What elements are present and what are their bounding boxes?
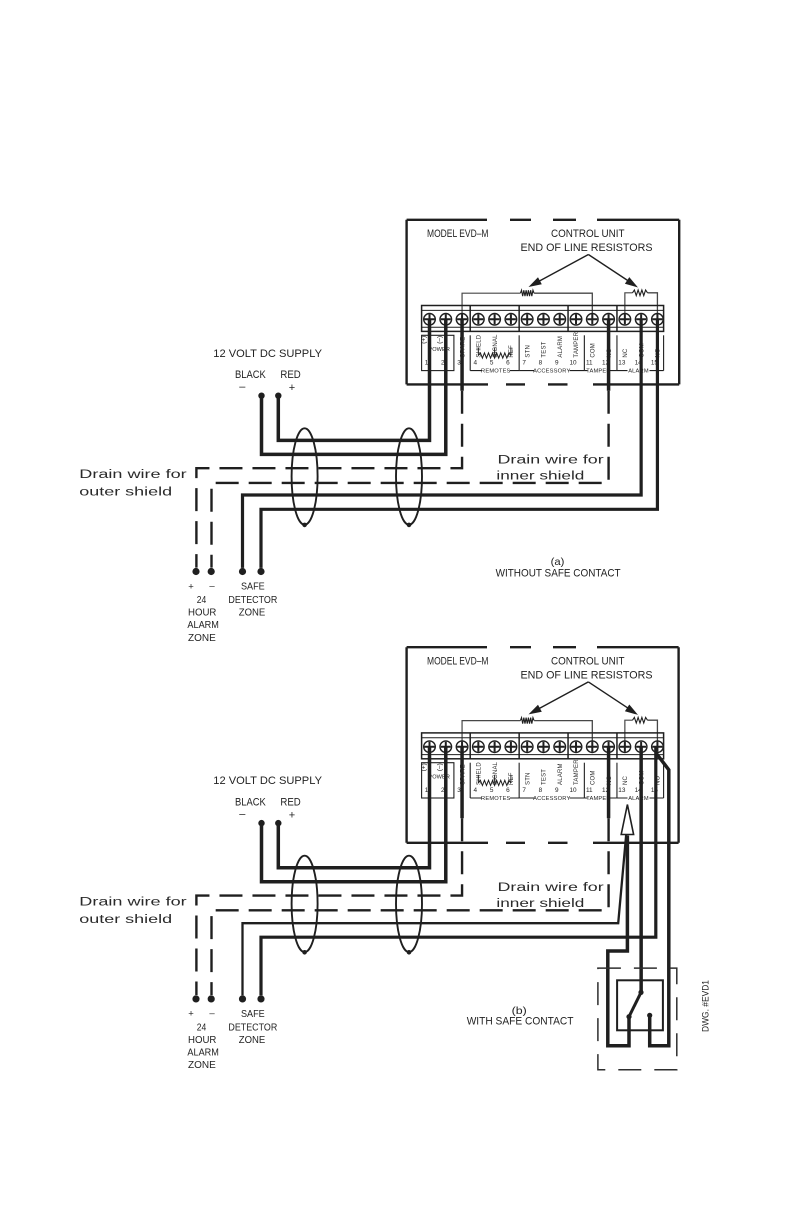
drain wire outer shield t3 (b) — [460, 747, 464, 819]
drain wire inner shield t12 (a) — [607, 319, 611, 391]
cable shield ellipse left (b) — [292, 856, 318, 952]
svg-text:REMOTES: REMOTES — [481, 369, 511, 375]
terminal strip TB1 (b) — [422, 733, 664, 759]
svg-text:9: 9 — [555, 360, 559, 367]
svg-text:(+): (+) — [420, 336, 427, 344]
svg-text:+: + — [188, 1009, 194, 1020]
group label REMOTES (a) — [470, 370, 519, 372]
group label REMOTES (b) — [470, 797, 519, 799]
supply node dots (a) — [258, 393, 264, 399]
cable shield ellipse right (a) — [396, 428, 422, 524]
svg-text:SAFE: SAFE — [241, 582, 265, 593]
svg-text:5: 5 — [490, 787, 494, 794]
svg-text:HOUR: HOUR — [188, 1035, 216, 1046]
svg-text:REF: REF — [509, 772, 515, 785]
svg-text:STN: STN — [525, 345, 531, 358]
svg-text:13: 13 — [618, 787, 626, 794]
svg-text:REMOTES: REMOTES — [481, 796, 511, 802]
svg-text:6: 6 — [506, 360, 510, 367]
EOL resistor R1 wire t3-t11 (a) — [462, 293, 520, 319]
svg-text:+: + — [289, 810, 295, 822]
svg-text:ACCESSORY: ACCESSORY — [533, 796, 570, 802]
svg-text:END OF LINE RESISTORS: END OF LINE RESISTORS — [521, 669, 653, 681]
svg-text:5: 5 — [490, 360, 494, 367]
terminal screws 1-15 (b) — [424, 741, 664, 753]
svg-text:MODEL EVD–M: MODEL EVD–M — [427, 228, 489, 240]
remote EOL resistor across terminals 4-6 (b) — [478, 775, 511, 783]
drain wire inner shield t12 (b) — [607, 747, 611, 819]
24 hour zone node dots (a) — [192, 568, 199, 575]
remote EOL resistor across terminals 4-6 (a) — [478, 348, 511, 356]
svg-text:ZONE: ZONE — [239, 1035, 266, 1046]
arrow to right EOL resistor (b) — [588, 682, 633, 712]
arrow to left EOL resistor (b) — [533, 682, 588, 712]
switch arm and contacts (b) — [629, 992, 641, 1016]
svg-text:HOUR: HOUR — [188, 608, 216, 619]
svg-text:–: – — [209, 581, 215, 592]
svg-text:24: 24 — [197, 1022, 207, 1033]
svg-text:MODEL EVD–M: MODEL EVD–M — [427, 656, 489, 668]
svg-text:outer shield: outer shield — [79, 914, 172, 926]
svg-text:ZONE: ZONE — [188, 633, 216, 644]
terminal screws 1-15 (a) — [424, 314, 664, 326]
cable shield ellipse left (a) — [292, 428, 318, 524]
group label TAMPER (b) — [584, 797, 617, 799]
svg-text:ALARM: ALARM — [187, 1048, 219, 1059]
wire black - supply to terminal 2 (a) — [262, 319, 446, 454]
svg-text:WITHOUT SAFE CONTACT: WITHOUT SAFE CONTACT — [496, 567, 621, 579]
EOL resistor R1 wire t3-t11 (b) — [462, 721, 520, 747]
drain wire outer shield t3 (a) — [460, 319, 464, 391]
wire terminal 14 to safe detector zone (a) — [243, 319, 642, 568]
svg-text:7: 7 — [522, 787, 526, 794]
safe contact dashed outline (b) — [598, 968, 677, 1070]
svg-text:ACCESSORY: ACCESSORY — [533, 369, 570, 375]
wire terminal 15 to safe detector zone (b) — [261, 747, 656, 996]
svg-text:12 VOLT DC SUPPLY: 12 VOLT DC SUPPLY — [213, 775, 322, 787]
terminal label frame (b) — [422, 763, 664, 798]
control unit enclosure box (b) — [407, 647, 679, 843]
wire safe contact to safe detector zone (b) — [243, 835, 627, 996]
svg-text:STN: STN — [525, 772, 531, 785]
svg-text:COM: COM — [591, 343, 597, 358]
svg-text:13: 13 — [618, 360, 626, 367]
safe detector zone node dots (b) — [239, 995, 246, 1002]
svg-text:ZONE: ZONE — [188, 1060, 216, 1071]
svg-text:7: 7 — [522, 360, 526, 367]
wire terminal 14 to safe contact switch (b) — [639, 747, 643, 993]
24 hour zone node dots (b) — [192, 995, 199, 1002]
svg-text:END OF LINE RESISTORS: END OF LINE RESISTORS — [521, 242, 653, 254]
svg-text:Drain wire for: Drain wire for — [498, 882, 604, 894]
svg-text:(–): (–) — [437, 763, 444, 771]
svg-text:BLACK: BLACK — [235, 369, 266, 381]
terminal name labels SPARE..NO (b) — [460, 759, 661, 785]
svg-text:COM: COM — [591, 770, 597, 785]
svg-text:(–): (–) — [437, 336, 444, 344]
pin numbers 1-15 (b) — [425, 787, 659, 794]
svg-text:TAMPER: TAMPER — [574, 759, 580, 785]
svg-text:11: 11 — [586, 360, 593, 367]
svg-text:6: 6 — [506, 787, 510, 794]
safe contact arrow cone at terminal 13 (b) — [621, 805, 633, 835]
svg-text:8: 8 — [539, 787, 543, 794]
svg-text:(a): (a) — [551, 556, 565, 568]
group label ALARM (b) — [617, 797, 664, 799]
control unit enclosure box (a) — [407, 220, 680, 385]
arrow to left EOL resistor (a) — [533, 255, 588, 285]
svg-text:+: + — [188, 581, 194, 592]
svg-text:CONTROL UNIT: CONTROL UNIT — [551, 656, 625, 668]
safe detector zone node dots (a) — [239, 568, 246, 575]
safe contact switch box (b) — [617, 980, 663, 1030]
supply node dots (b) — [258, 820, 264, 826]
svg-text:WITH SAFE CONTACT: WITH SAFE CONTACT — [467, 1015, 574, 1027]
svg-text:inner shield: inner shield — [496, 898, 584, 910]
arrow to right EOL resistor (a) — [588, 255, 633, 285]
group label ACCESSORY (b) — [519, 797, 584, 799]
cable shield ellipse right (b) — [396, 856, 422, 952]
svg-text:RED: RED — [280, 796, 300, 808]
svg-text:8: 8 — [539, 360, 543, 367]
svg-text:ALARM: ALARM — [187, 620, 219, 631]
svg-text:SAFE: SAFE — [241, 1009, 265, 1020]
svg-text:RED: RED — [280, 369, 300, 381]
wire terminal 15 to safe detector zone (a) — [261, 319, 657, 568]
svg-text:NC: NC — [623, 775, 629, 785]
terminal label frame (a) — [422, 335, 664, 370]
wire red + supply to terminal 1 (a) — [278, 319, 429, 440]
svg-text:ALARM: ALARM — [628, 369, 649, 375]
svg-text:DETECTOR: DETECTOR — [228, 1022, 277, 1033]
terminal name labels SPARE..NO (a) — [460, 331, 661, 357]
terminal strip TB1 (a) — [422, 306, 664, 332]
svg-text:ALARM: ALARM — [558, 763, 564, 785]
wire terminal 15 to switch contact (b) — [650, 753, 669, 1046]
group label ACCESSORY (a) — [519, 370, 584, 372]
svg-text:ZONE: ZONE — [239, 608, 266, 619]
svg-text:DWG. #EVD1: DWG. #EVD1 — [701, 980, 711, 1032]
svg-text:TEST: TEST — [542, 769, 548, 785]
svg-text:24: 24 — [197, 595, 207, 606]
svg-text:TAMPER: TAMPER — [574, 331, 580, 357]
svg-text:TEST: TEST — [542, 341, 548, 357]
svg-text:outer shield: outer shield — [79, 487, 172, 499]
svg-text:ALARM: ALARM — [628, 796, 649, 802]
svg-text:10: 10 — [569, 360, 577, 367]
svg-text:4: 4 — [474, 360, 478, 367]
svg-text:inner shield: inner shield — [496, 470, 584, 482]
svg-text:REF: REF — [509, 345, 515, 358]
svg-text:Drain wire for: Drain wire for — [498, 454, 604, 466]
svg-text:ALARM: ALARM — [558, 336, 564, 358]
svg-text:11: 11 — [586, 787, 593, 794]
svg-text:Drain wire for: Drain wire for — [79, 469, 187, 481]
svg-text:+: + — [289, 382, 295, 394]
svg-text:BLACK: BLACK — [235, 796, 266, 808]
group label ALARM (a) — [617, 370, 664, 372]
svg-text:NC: NC — [623, 348, 629, 358]
svg-text:–: – — [239, 809, 246, 821]
svg-text:(+): (+) — [420, 763, 427, 771]
wire red + supply to terminal 1 (b) — [278, 747, 429, 868]
svg-text:Drain wire for: Drain wire for — [79, 896, 187, 908]
svg-text:9: 9 — [555, 787, 559, 794]
svg-text:–: – — [209, 1008, 215, 1019]
EOL resistor R2 wire t13-t15 (a) — [625, 293, 633, 320]
svg-text:4: 4 — [474, 787, 478, 794]
svg-text:CONTROL UNIT: CONTROL UNIT — [551, 228, 625, 240]
svg-text:DETECTOR: DETECTOR — [228, 595, 277, 606]
svg-text:–: – — [239, 381, 246, 393]
group label TAMPER (a) — [584, 370, 617, 372]
wire black - supply to terminal 2 (b) — [262, 747, 446, 882]
wire switch to safe contact cone (b) — [608, 836, 629, 1046]
pin numbers 1-15 (a) — [425, 360, 659, 367]
svg-text:12 VOLT DC SUPPLY: 12 VOLT DC SUPPLY — [213, 348, 322, 360]
EOL resistor R2 wire t13-t15 (b) — [625, 720, 633, 747]
svg-text:10: 10 — [569, 787, 577, 794]
